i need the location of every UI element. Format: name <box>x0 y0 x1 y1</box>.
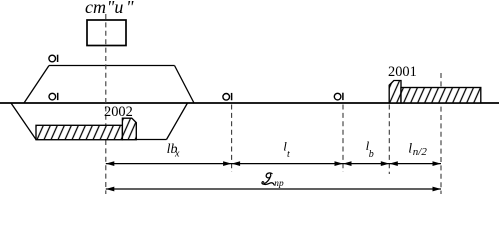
svg-text:2002: 2002 <box>104 104 133 120</box>
svg-text:x: x <box>174 149 180 160</box>
svg-text:t: t <box>287 149 290 160</box>
svg-text:пр: пр <box>274 179 284 189</box>
svg-text:b: b <box>369 149 374 160</box>
svg-text:l: l <box>408 142 412 157</box>
svg-text:ст"и": ст"и" <box>85 0 134 17</box>
svg-text:п/2: п/2 <box>413 146 428 158</box>
svg-text:2001: 2001 <box>388 64 417 80</box>
